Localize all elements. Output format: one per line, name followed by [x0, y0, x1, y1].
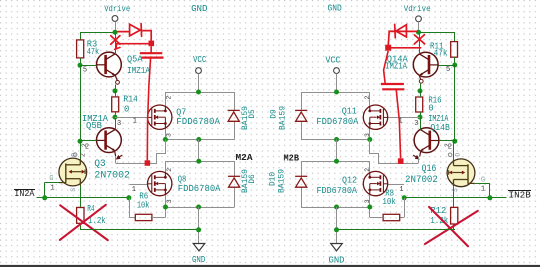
resistor R14 [112, 97, 119, 112]
svg-text:3: 3 [117, 120, 121, 128]
ghost wire diode right [388, 24, 417, 44]
pin circle Q16 drain [448, 153, 452, 157]
node GND rail right [334, 227, 339, 232]
wire R3 bottom lead [80, 58, 82, 65]
pin circle Q5A emitter [116, 80, 120, 84]
wire R8 left riser [369, 207, 371, 217]
wire Q14A emitter to R16 [420, 83, 422, 91]
pin Q12 drain stub [369, 161, 371, 173]
wire GND drop left [198, 207, 200, 243]
wire D5 bottom [234, 122, 236, 140]
resistor R12 (deleted) [451, 207, 458, 224]
svg-text:0: 0 [428, 104, 433, 114]
ghost wire diode left [118, 24, 151, 41]
svg-text:Q5B: Q5B [86, 121, 102, 131]
wire Q5A collector [115, 32, 117, 54]
wire base bus right [454, 65, 456, 141]
svg-text:FDD6780A: FDD6780A [176, 117, 220, 127]
ground right [331, 244, 343, 251]
wire Q5B collector [115, 117, 117, 129]
node R14 top [113, 88, 118, 93]
node R11/Q14A base [452, 63, 457, 68]
svg-text:Q5A: Q5A [127, 54, 143, 64]
arrow Q14B emitter [413, 155, 419, 159]
svg-text:D9: D9 [271, 109, 279, 119]
node IN2A/Q8 gate [126, 195, 131, 200]
wire vdrive rail right [419, 32, 455, 34]
transistor Q5A [96, 52, 121, 77]
svg-text:0: 0 [124, 105, 129, 115]
transistor Q14A [413, 52, 438, 77]
wire Q14B base [439, 140, 455, 142]
svg-text:Q3: Q3 [94, 159, 105, 170]
wire D5 top [234, 92, 236, 110]
diode D5 BA159 [228, 110, 240, 121]
ghost junction left [149, 41, 155, 47]
svg-text:1: 1 [132, 186, 136, 194]
wire Q16 gate drop [489, 183, 491, 198]
svg-text:R14: R14 [123, 94, 137, 104]
delete X Q14A collector [414, 35, 424, 44]
pin Q7 source stub [165, 128, 167, 140]
ghost wire stub left [115, 44, 149, 50]
wire vdrive stub right [418, 22, 420, 32]
wire D6 bottom [234, 188, 236, 208]
svg-text:M2B: M2B [284, 152, 300, 163]
svg-text:2: 2 [166, 168, 173, 172]
svg-text:BA159: BA159 [279, 106, 288, 130]
pin Q11 drain stub [369, 92, 371, 107]
wire R12 bottom lead [453, 224, 455, 230]
wire R16 bottom lead [420, 112, 422, 117]
wire D9 top [301, 92, 303, 110]
svg-text:D: D [454, 153, 461, 157]
node Q12 source [367, 205, 372, 210]
ground left [193, 244, 205, 251]
wire R6 right lead [152, 217, 166, 219]
transistor Q12 [363, 171, 388, 195]
pin Q5B emitter [114, 152, 117, 157]
ghost junction left 2 [145, 160, 151, 166]
svg-text:Vdrive: Vdrive [404, 4, 431, 14]
wire R16 top lead [420, 91, 422, 97]
node M2A rail [196, 159, 201, 164]
wire R4 top lead [80, 198, 82, 208]
wire Q5A emitter to R14 [115, 84, 117, 91]
wire VCC stub right [336, 73, 338, 92]
wire R8 right drop [404, 198, 406, 218]
ghost capacitor leads left [147, 46, 151, 160]
wire bottom rail left [165, 207, 234, 209]
transistor Q7 [147, 105, 172, 129]
wire Q14A base [438, 65, 455, 67]
ghost wire stub right [391, 47, 420, 49]
wire top rail right [301, 92, 370, 94]
node IN2B/Q12 gate [402, 195, 407, 200]
wire R14 bottom lead [115, 112, 117, 117]
window border bottom [0, 265, 540, 267]
wire Q12 gate [388, 184, 405, 186]
arrow Q5B emitter [117, 155, 123, 159]
svg-text:IMZ1A: IMZ1A [127, 66, 151, 76]
Vdrive port right [416, 16, 422, 22]
node R3/Q5A base [78, 63, 83, 68]
wire Q5A base [80, 65, 96, 67]
pin circle Q3 drain [73, 153, 77, 157]
pin Q8 drain stub [165, 161, 167, 173]
svg-text:VCC: VCC [325, 56, 341, 66]
svg-text:D10: D10 [270, 172, 278, 186]
wire vdrive rail left [80, 32, 115, 34]
svg-text:D6: D6 [249, 174, 257, 184]
svg-text:G: G [49, 175, 53, 183]
svg-text:S: S [452, 188, 459, 192]
wire R8 right lead [400, 217, 405, 219]
node mid rail right [334, 137, 339, 142]
wire VCC stub left [198, 73, 200, 92]
node IN2A/Q3 [42, 195, 47, 200]
wire Q16 source [453, 186, 455, 198]
svg-text:Q11: Q11 [342, 107, 357, 117]
svg-text:2N7002: 2N7002 [405, 175, 438, 186]
svg-text:3: 3 [414, 120, 418, 128]
wire Q3 gate drop [44, 183, 46, 198]
wire Q16 drain [453, 141, 455, 160]
node Q11 source [367, 137, 372, 142]
wire R11 bottom lead [454, 57, 456, 65]
node bottom rail left [196, 205, 201, 210]
wire Q3 drain [80, 141, 82, 159]
wire to GND left [80, 229, 198, 231]
svg-text:10k: 10k [137, 200, 150, 210]
svg-text:1: 1 [481, 186, 485, 194]
svg-text:2: 2 [80, 153, 87, 157]
node Q14B base/Q16 drain [452, 139, 457, 144]
node vdrive right [416, 30, 421, 35]
wire top rail left [165, 92, 234, 94]
pin Q14B emitter [419, 152, 422, 157]
pin Q11 source stub [369, 128, 371, 140]
svg-text:R4: R4 [87, 204, 94, 214]
svg-text:Q14B: Q14B [430, 123, 450, 133]
wire mid cross right [336, 140, 338, 162]
node Q5B base/Q3 drain [78, 139, 83, 144]
resistor R4 (deleted) [77, 208, 84, 224]
wire IN2A [37, 197, 129, 199]
wire Q3 gate [45, 182, 59, 184]
node bottom rail right [334, 205, 339, 210]
overline IN2A [14, 189, 35, 191]
node R16 top [418, 88, 423, 93]
pin Q12 source stub [369, 194, 371, 207]
wire R6 left lead [129, 217, 135, 219]
VCC port left [196, 68, 202, 74]
svg-text:Vdrive: Vdrive [104, 4, 130, 14]
wire Q14A collector [419, 32, 421, 54]
node M2B rail [334, 159, 339, 164]
svg-text:3: 3 [364, 133, 371, 137]
node Q7 source [163, 137, 168, 142]
svg-text:Q7: Q7 [176, 107, 186, 117]
wire R3 top lead [80, 32, 82, 40]
transistor Q5B [96, 128, 121, 153]
svg-text:10k: 10k [382, 197, 396, 207]
wire M2B rail [301, 161, 370, 163]
transistor Q3 [59, 158, 87, 186]
wire D6 top [234, 161, 236, 176]
wire mid cross left [198, 140, 200, 162]
delete X over R4 [60, 205, 108, 240]
wire D9 bottom [301, 122, 303, 140]
node R14 bottom [113, 115, 118, 120]
transistor Q14B [414, 128, 439, 153]
node VCC rail right [334, 90, 339, 95]
resistor R6 [135, 214, 152, 220]
node vdrive left [113, 30, 118, 35]
wire to GND right [337, 229, 455, 231]
wire Q5B base [80, 140, 96, 142]
svg-text:3: 3 [166, 199, 173, 203]
ghost junction right [385, 45, 391, 51]
resistor R11 [451, 42, 458, 58]
svg-text:1: 1 [133, 118, 137, 126]
wire Q11 gate [388, 117, 420, 119]
wire R8 left lead [370, 217, 383, 219]
wire Q7 gate [115, 117, 147, 119]
ghost capacitor left [140, 53, 164, 57]
Vdrive port left [112, 16, 118, 22]
pin Q8 source stub [165, 194, 167, 207]
wire Q16 gate [475, 183, 490, 185]
wire D10 bottom [301, 188, 303, 208]
transistor Q8 [147, 171, 172, 195]
svg-text:FDD6780A: FDD6780A [317, 186, 358, 196]
wire staircase right [370, 140, 419, 164]
wire mid rail right [301, 139, 370, 141]
svg-text:Q16: Q16 [422, 164, 437, 175]
wire IN2B [404, 197, 506, 199]
svg-text:1: 1 [51, 185, 55, 193]
wire base bus left [80, 65, 82, 141]
wire staircase left [116, 140, 166, 164]
svg-text:GND: GND [328, 4, 342, 14]
svg-text:5: 5 [446, 66, 450, 74]
wire mid rail left [165, 139, 234, 141]
svg-text:2: 2 [444, 143, 451, 147]
svg-text:FDD6780A: FDD6780A [178, 184, 221, 194]
svg-text:M2A: M2A [236, 152, 253, 163]
wire bottom rail right [301, 207, 370, 209]
node R16 bottom [418, 115, 423, 120]
wire vdrive stub left [115, 21, 117, 32]
svg-text:S: S [70, 188, 77, 192]
svg-text:GND: GND [329, 255, 345, 265]
wire Q3 source [80, 186, 82, 198]
wire R6 right riser [165, 207, 167, 217]
node GND rail left [196, 227, 201, 232]
wire Q14B emitter tail [418, 157, 420, 163]
svg-text:Q12: Q12 [342, 175, 357, 185]
wire D10 top [301, 161, 303, 176]
wire Q5B emitter tail [115, 157, 117, 163]
resistor R3 [77, 40, 84, 58]
svg-text:47k: 47k [87, 47, 99, 57]
svg-text:FDD6780A: FDD6780A [316, 117, 359, 127]
delete X Q5A collector [111, 36, 120, 45]
ghost capacitor leads right [384, 51, 401, 158]
wire R12 top lead [453, 198, 455, 208]
pin Q5A emitter [115, 76, 117, 81]
wire M2A rail [165, 161, 234, 163]
svg-text:GND: GND [192, 255, 205, 265]
wire R4 bottom lead [80, 223, 82, 230]
svg-text:VCC: VCC [193, 55, 207, 65]
svg-text:2N7002: 2N7002 [94, 171, 130, 182]
pin Q14A emitter [419, 76, 421, 80]
wire Q8 gate [129, 184, 147, 186]
svg-text:3: 3 [364, 199, 371, 203]
wire R6 left drop [129, 198, 131, 218]
ghost capacitor right [381, 84, 405, 89]
wire R11 top lead [454, 32, 456, 41]
svg-text:2: 2 [364, 168, 371, 172]
overline IN2B [508, 190, 531, 192]
resistor R16 [416, 97, 423, 112]
wire R14 top lead [115, 91, 117, 97]
wire GND drop right [336, 207, 338, 243]
diode D9 BA159 [295, 110, 307, 121]
resistor R8 [383, 214, 400, 220]
svg-text:5: 5 [83, 66, 87, 74]
node IN2B/Q16 [487, 195, 492, 200]
delete X over R12 [425, 207, 478, 246]
svg-text:IMZ1A: IMZ1A [385, 62, 407, 72]
VCC port right [334, 68, 340, 74]
svg-text:D5: D5 [249, 109, 257, 119]
svg-text:1: 1 [399, 186, 403, 194]
svg-text:BA159: BA159 [278, 169, 287, 193]
ghost junction right 2 [398, 158, 404, 164]
diode D6 BA159 [228, 176, 240, 187]
node Q8 source [163, 205, 168, 210]
pin circle Q14A emitter [419, 79, 423, 83]
transistor Q11 [363, 105, 388, 129]
node mid rail left [196, 137, 201, 142]
svg-text:2: 2 [364, 96, 371, 100]
svg-text:2: 2 [166, 96, 173, 100]
pin Q7 drain stub [165, 92, 167, 107]
node VCC rail left [196, 90, 201, 95]
svg-text:3: 3 [166, 133, 173, 137]
svg-text:GND: GND [191, 4, 207, 14]
diode D10 BA159 [295, 176, 307, 187]
svg-text:2: 2 [81, 143, 88, 147]
wire Q14B collector [420, 117, 422, 130]
transistor Q16 [447, 159, 475, 187]
